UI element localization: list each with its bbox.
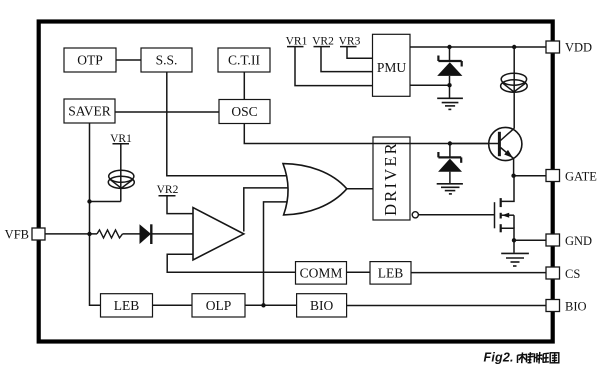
wire BIO to pin: [347, 305, 546, 307]
block LEB (bottom): [101, 294, 153, 317]
comparator U1: [193, 208, 244, 260]
wire line crossing DRIVER (OSC to base) redrawn over box: [373, 143, 410, 145]
wire GATE node to pin: [514, 175, 546, 177]
block C.T.II: [218, 48, 270, 72]
svg-text:VDD: VDD: [565, 41, 592, 55]
wire OSC down then right to BJT base: [244, 124, 498, 144]
svg-text:BIO: BIO: [310, 298, 334, 313]
pin GND: [546, 234, 592, 248]
block COMM: [296, 262, 347, 285]
svg-text:VR2: VR2: [312, 36, 334, 48]
svg-text:VFB: VFB: [5, 228, 29, 242]
wire VR3 into PMU: [347, 47, 373, 59]
svg-text:SAVER: SAVER: [68, 104, 111, 119]
wire SAVER down to LEB: [90, 123, 101, 305]
svg-text:C.T.II: C.T.II: [228, 53, 260, 68]
transistor Q1 (NPN): [450, 127, 522, 160]
caption chinese glyph 1 (内): [518, 352, 527, 363]
junction dot Z2 top: [448, 141, 452, 145]
junction dot VR1/SAVER line: [87, 199, 91, 203]
wire comparator output up to OR gate middle input: [244, 188, 289, 232]
node VR1 reference bar: [110, 133, 132, 145]
wire S.S. down and right to OR gate top input: [167, 72, 289, 176]
wire LEB to OLP: [153, 304, 193, 306]
wire C.T.II to OSC: [243, 72, 245, 100]
svg-text:CS: CS: [565, 267, 580, 281]
block BIO: [297, 294, 347, 317]
current source I2: [501, 73, 528, 92]
node VR1 top label: [286, 36, 308, 48]
svg-text:DRIVER: DRIVER: [381, 141, 400, 216]
junction dot VDD rail / current source: [512, 45, 516, 49]
block OLP: [192, 294, 245, 317]
ground under Z2: [437, 184, 463, 194]
node VR3 top label: [339, 36, 361, 48]
block S.S.: [141, 48, 192, 72]
wire VR2 into PMU: [321, 47, 373, 72]
block DRIVER: [373, 137, 410, 220]
wire COMM to LEB: [347, 271, 370, 273]
wire OR output to DRIVER: [347, 188, 373, 190]
outer border frame: [39, 22, 553, 342]
wire VFB line: [45, 233, 193, 235]
pin BIO: [546, 300, 587, 314]
block LEB (CS path): [370, 262, 411, 285]
wire PMU lower output to zener Z1: [410, 84, 450, 86]
wire LEB to CS pin: [411, 272, 546, 274]
svg-text:COMM: COMM: [300, 265, 343, 280]
zener diode Z2: [438, 144, 462, 184]
inverter bubble at DRIVER output: [412, 212, 418, 218]
svg-text:LEB: LEB: [378, 265, 404, 280]
svg-text:GATE: GATE: [565, 170, 597, 184]
junction dot VDD rail / Z1: [447, 45, 451, 49]
zener diode Z1: [437, 47, 462, 98]
junction dot GND node: [512, 238, 516, 242]
svg-text:BIO: BIO: [565, 300, 587, 314]
node VR2 reference bar: [157, 184, 179, 196]
block PMU: [373, 34, 411, 96]
node VR2 top label: [312, 36, 334, 48]
wire OLP to BIO: [245, 304, 297, 306]
pin GATE: [546, 170, 597, 184]
wire OR gate bottom input down to OLP-BIO row: [264, 202, 290, 305]
caption chinese glyph 4 (图): [550, 353, 559, 363]
svg-text:LEB: LEB: [114, 298, 140, 313]
block SAVER: [64, 99, 115, 123]
OR gate G1: [283, 164, 347, 215]
svg-text:VR1: VR1: [286, 36, 308, 48]
pin VFB: [5, 228, 45, 242]
ground under Z1: [437, 98, 463, 109]
wire DRIVER bubble to MOSFET gate: [418, 214, 494, 216]
wire VR1 reference to current source and to SAVER line: [90, 144, 121, 202]
svg-text:VR2: VR2: [157, 184, 179, 196]
svg-text:PMU: PMU: [377, 60, 407, 75]
wire SAVER to OSC: [115, 111, 219, 113]
diode D1: [140, 224, 152, 244]
junction dot VFB line: [87, 232, 91, 236]
wire BJT emitter down to GATE node: [513, 159, 515, 177]
junction dot GATE node: [511, 174, 515, 178]
caption chinese glyph 3 (框): [537, 352, 549, 364]
wire VR2 to comparator plus input: [167, 196, 193, 214]
wire VR1 into PMU: [295, 47, 373, 86]
wire comparator feedback to COMM: [167, 254, 295, 272]
MOSFET M1: [495, 176, 515, 253]
ground under MOSFET: [501, 253, 529, 266]
svg-text:VR3: VR3: [339, 36, 361, 48]
block OTP: [64, 48, 116, 72]
caption chinese glyph 2 (部): [528, 352, 538, 363]
wire OTP to S.S.: [116, 59, 141, 61]
svg-text:Fig2.: Fig2.: [484, 351, 514, 365]
block OSC: [219, 100, 270, 124]
svg-text:S.S.: S.S.: [156, 53, 178, 68]
svg-text:OLP: OLP: [206, 298, 232, 313]
resistor R1: [97, 230, 123, 238]
wire PMU top output to VDD pin: [410, 46, 546, 48]
junction dot Z1 anode / PMU line: [447, 83, 451, 87]
current source I1 (VR1): [108, 170, 134, 188]
pin CS: [546, 267, 580, 281]
svg-text:OTP: OTP: [77, 53, 103, 68]
svg-text:OSC: OSC: [231, 104, 257, 119]
wire GND node to pin: [514, 239, 546, 241]
svg-text:GND: GND: [565, 234, 592, 248]
pin VDD: [546, 41, 592, 55]
junction dot OLP-BIO row: [261, 303, 265, 307]
wire VDD rail down through current source to BJT collector: [513, 47, 515, 129]
